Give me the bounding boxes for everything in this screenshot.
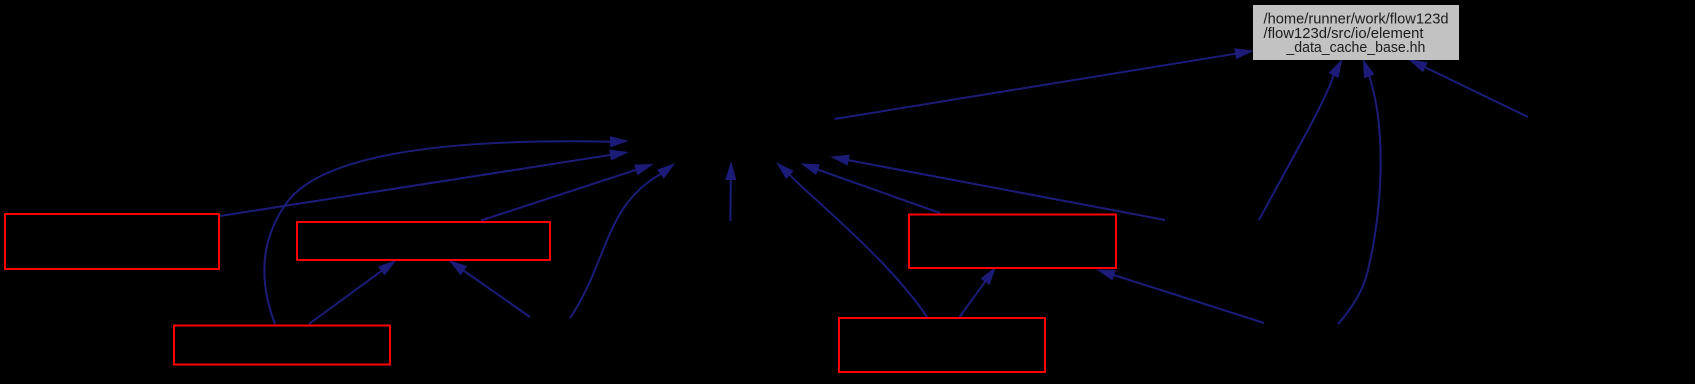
node B (red box)	[297, 222, 550, 260]
edge H to gray node (curve)	[1338, 61, 1381, 325]
edge F to center node (curve)	[570, 164, 674, 318]
edge C to B	[309, 261, 395, 324]
edge B to center node	[481, 165, 652, 221]
node E (red box)	[839, 318, 1045, 372]
edge C to center node (curve)	[264, 137, 627, 324]
edge E to D	[960, 268, 995, 317]
edge F to B	[450, 261, 530, 317]
edge J to gray node (curve)	[1259, 61, 1342, 221]
edge A to center node	[220, 150, 627, 216]
node D (red box)	[909, 215, 1116, 269]
edge center node to gray node	[835, 49, 1253, 119]
edge D to center node	[802, 164, 940, 213]
node C (red box)	[174, 326, 390, 365]
edge J to center node	[832, 155, 1165, 220]
edge E to center node (curve)	[778, 164, 928, 318]
edge G to center node (vertical)	[726, 163, 736, 221]
svg-text:_data_cache_base.hh: _data_cache_base.hh	[1285, 39, 1425, 56]
edge H to D	[1098, 270, 1264, 323]
edge K to gray node	[1410, 60, 1528, 117]
gray node: /home/runner/work/flow123d/flow123d/src/io/element_data_cache_base.hh	[1253, 5, 1459, 60]
node A (red box)	[5, 214, 219, 269]
